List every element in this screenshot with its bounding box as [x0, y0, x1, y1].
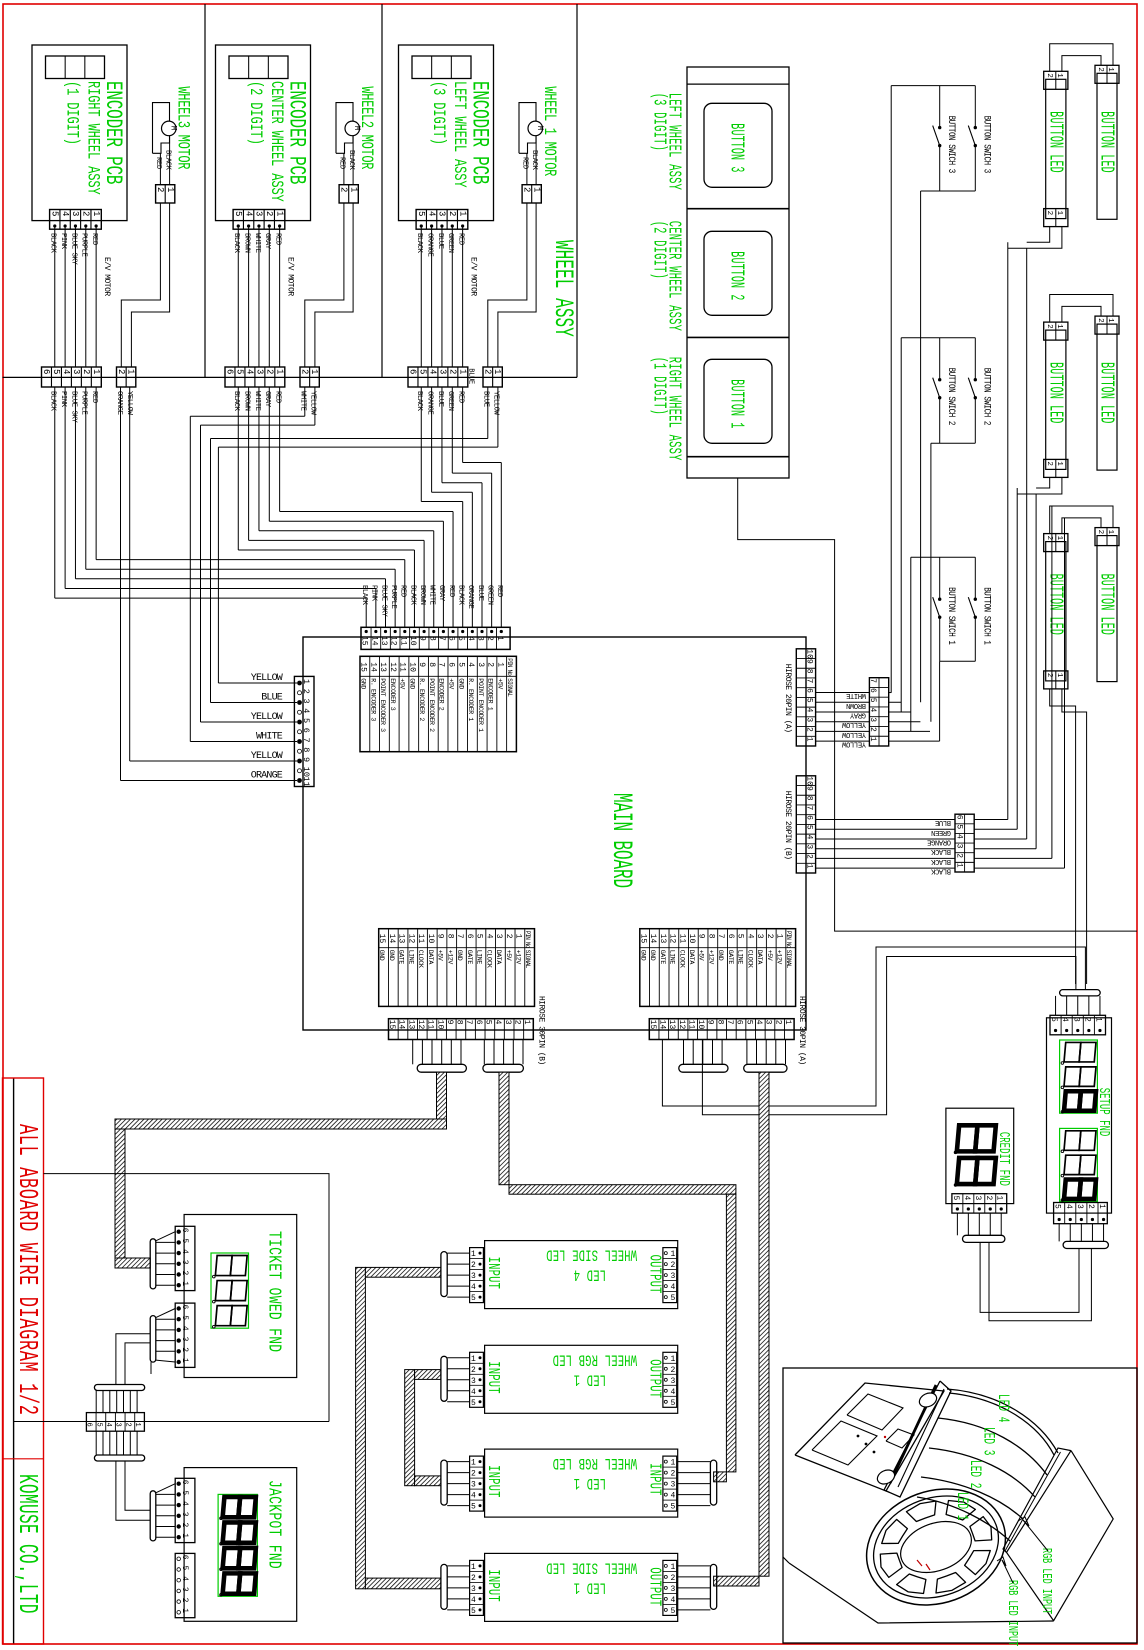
CREDIT FND 5-pin connector — [952, 1194, 1007, 1213]
svg-text:10: 10 — [805, 776, 814, 786]
wires ribbon to jackpot bus — [116, 1461, 150, 1520]
svg-text:8: 8 — [715, 1020, 724, 1025]
wire to pin 1 (YELLOW) — [218, 682, 297, 684]
svg-text:BUTTON LED: BUTTON LED — [1044, 574, 1067, 635]
svg-text:GND: GND — [717, 950, 724, 961]
svg-text:1: 1 — [309, 369, 319, 374]
LED riser wires — [1007, 242, 1009, 819]
svg-text:ENCODER 3: ENCODER 3 — [389, 678, 396, 710]
svg-text:BLACK: BLACK — [930, 847, 951, 855]
svg-text:3: 3 — [471, 1481, 476, 1490]
switch 2 right — [974, 338, 976, 380]
motor 1 wires down with jog — [121, 203, 160, 367]
JACKPOT FND box — [184, 1468, 297, 1622]
button LED 2a tube — [1046, 330, 1066, 469]
svg-text:2: 2 — [486, 662, 495, 667]
motor 3 bottom 2-pin connector — [483, 367, 502, 387]
svg-text:GATE: GATE — [659, 950, 666, 965]
svg-text:13: 13 — [667, 1020, 676, 1030]
svg-text:4: 4 — [493, 1020, 502, 1025]
svg-text:2: 2 — [339, 187, 349, 192]
section divider 1 — [204, 4, 206, 377]
svg-text:2: 2 — [180, 1598, 189, 1603]
7-pin output wires turning up — [889, 740, 940, 742]
motor 3 wires down with jog — [488, 203, 527, 367]
svg-text:BUTTON SWICH 1: BUTTON SWICH 1 — [981, 587, 992, 644]
svg-text:1: 1 — [458, 369, 468, 374]
svg-text:2: 2 — [955, 853, 964, 858]
svg-text:4: 4 — [1060, 1017, 1069, 1022]
svg-text:2: 2 — [522, 187, 532, 192]
svg-text:1: 1 — [180, 1358, 189, 1363]
svg-text:11: 11 — [416, 934, 425, 944]
encoder 2 wires to bottom connector — [237, 226, 239, 367]
encoder 2 5-pin connector — [233, 210, 285, 230]
svg-text:JACKPOT FND: JACKPOT FND — [264, 1480, 285, 1569]
svg-text:LED 1: LED 1 — [574, 1578, 606, 1596]
svg-text:12: 12 — [668, 934, 677, 944]
isometric right plate — [1007, 1451, 1114, 1621]
svg-text:3: 3 — [114, 1423, 122, 1427]
svg-text:5: 5 — [301, 718, 311, 723]
svg-text:14: 14 — [368, 662, 377, 672]
svg-text:3: 3 — [503, 1020, 512, 1025]
svg-text:HIROSE 30PIN (B): HIROSE 30PIN (B) — [536, 996, 545, 1065]
svg-text:15: 15 — [359, 662, 368, 672]
svg-text:5: 5 — [805, 825, 814, 830]
svg-text:1: 1 — [671, 1250, 676, 1259]
svg-text:14: 14 — [369, 636, 378, 646]
svg-text:+5V: +5V — [399, 678, 406, 689]
svg-text:LED 1: LED 1 — [574, 1473, 606, 1491]
motor 3 wires to 2-pin connector — [526, 153, 528, 184]
svg-text:RIGHT WHEEL ASSY: RIGHT WHEEL ASSY — [83, 81, 102, 195]
svg-text:+5V: +5V — [698, 950, 705, 961]
svg-text:7: 7 — [455, 934, 464, 939]
svg-text:ENCODER PCB: ENCODER PCB — [284, 81, 311, 185]
svg-text:2: 2 — [1096, 67, 1104, 72]
TICKET FND bus bar 1 — [150, 1239, 156, 1289]
svg-text:13: 13 — [406, 1020, 415, 1030]
svg-text:7: 7 — [437, 662, 446, 667]
svg-text:GREEN: GREEN — [931, 828, 951, 836]
svg-text:3: 3 — [476, 636, 485, 641]
svg-text:3: 3 — [955, 844, 964, 849]
encoder PCB 2 box — [216, 45, 311, 221]
svg-text:6: 6 — [301, 728, 311, 733]
svg-text:BLUE SKY: BLUE SKY — [69, 391, 77, 423]
wire 6-pin pin1 to LED column — [974, 867, 1064, 869]
HIROSE 30PIN (B) pin row — [389, 1019, 534, 1040]
svg-text:BLACK: BLACK — [530, 150, 538, 171]
button LED 3a tube — [1046, 542, 1066, 681]
svg-text:RED: RED — [456, 391, 464, 403]
svg-text:1: 1 — [1055, 211, 1063, 216]
svg-text:1: 1 — [301, 679, 311, 684]
svg-text:PURPLE: PURPLE — [389, 585, 397, 609]
svg-text:3: 3 — [471, 1377, 476, 1386]
HIROSE 30PIN (B) bus bars — [417, 1064, 466, 1072]
svg-text:RED: RED — [399, 585, 407, 597]
svg-text:4: 4 — [1064, 1204, 1073, 1209]
ribbon wires lower — [95, 1431, 97, 1455]
svg-text:YELLOW: YELLOW — [841, 730, 866, 738]
isometric LED strip arcs — [917, 1389, 1058, 1541]
svg-text:6: 6 — [735, 1020, 744, 1025]
svg-text:BUTTON 2: BUTTON 2 — [725, 251, 748, 300]
svg-text:11: 11 — [686, 1020, 695, 1030]
svg-text:6: 6 — [180, 1555, 189, 1560]
svg-text:8: 8 — [455, 1020, 464, 1025]
svg-text:5: 5 — [671, 1503, 676, 1512]
svg-text:7: 7 — [868, 678, 877, 683]
CREDIT FND display — [957, 1125, 996, 1151]
svg-text:1: 1 — [471, 1563, 476, 1572]
svg-text:(2 DIGIT): (2 DIGIT) — [649, 221, 671, 279]
svg-text:1: 1 — [1093, 1017, 1102, 1022]
svg-text:GRAY: GRAY — [263, 391, 271, 408]
encoder 3 3-cell connector — [412, 56, 471, 79]
title block red box — [3, 1078, 44, 1644]
TICKET OWED FND display — [211, 1253, 249, 1328]
svg-text:2: 2 — [471, 1366, 476, 1375]
svg-text:BLUE: BLUE — [935, 818, 951, 826]
LED module LED 1 left bus bar — [441, 1460, 447, 1505]
svg-text:1: 1 — [495, 662, 504, 667]
svg-text:4: 4 — [671, 1283, 676, 1292]
svg-text:8: 8 — [706, 934, 715, 939]
encoder 3 5-pin connector — [416, 210, 468, 230]
svg-text:1: 1 — [180, 1281, 189, 1286]
LED module LED 1 left bus bar — [441, 1564, 447, 1609]
svg-text:+12V: +12V — [707, 950, 714, 965]
svg-text:PURPLE: PURPLE — [80, 233, 88, 257]
svg-text:5: 5 — [416, 211, 426, 216]
svg-text:BUTTON LED: BUTTON LED — [1095, 574, 1118, 635]
svg-text:6: 6 — [85, 1423, 93, 1427]
svg-text:RED: RED — [90, 391, 98, 403]
svg-text:(3 DIGIT): (3 DIGIT) — [649, 93, 671, 151]
LED pair 2 top rails — [1050, 295, 1113, 323]
svg-text:BROWN: BROWN — [242, 391, 250, 411]
isometric wheel rim — [850, 1470, 1022, 1624]
svg-text:1: 1 — [1055, 536, 1063, 541]
title block divider red — [3, 1458, 44, 1460]
svg-text:4: 4 — [745, 934, 754, 939]
TICKET FND connector 2 — [175, 1303, 195, 1367]
encoder 1 5-pin connector — [50, 210, 102, 230]
button LED 1b tube — [1097, 73, 1117, 219]
svg-text:5: 5 — [671, 1399, 676, 1408]
svg-text:3: 3 — [255, 369, 265, 374]
CREDIT FND bus bar — [963, 1235, 1005, 1242]
svg-text:ALL ABOARD WIRE DIAGRAM 1/2: ALL ABOARD WIRE DIAGRAM 1/2 — [12, 1124, 43, 1416]
isometric drawing frame — [783, 1368, 1137, 1643]
svg-text:1: 1 — [492, 369, 502, 374]
svg-text:9: 9 — [301, 757, 311, 762]
svg-text:14: 14 — [657, 1020, 666, 1030]
wire 6-pin pin3 to LED column — [974, 848, 1036, 850]
switch 1 right — [974, 557, 976, 599]
svg-text:WHITE: WHITE — [253, 391, 261, 411]
svg-text:12: 12 — [389, 636, 398, 646]
CREDIT FND box — [946, 1108, 1014, 1203]
svg-text:3: 3 — [1075, 1204, 1084, 1209]
svg-text:ORANGE: ORANGE — [115, 391, 123, 415]
svg-text:1: 1 — [671, 1563, 676, 1572]
svg-text:10: 10 — [407, 662, 416, 672]
svg-text:WHEEL SIDE LED: WHEEL SIDE LED — [546, 1245, 637, 1263]
svg-text:2: 2 — [1045, 324, 1053, 329]
svg-text:5: 5 — [50, 211, 60, 216]
svg-text:BLACK: BLACK — [49, 233, 57, 254]
svg-text:1: 1 — [671, 1459, 676, 1468]
LED module LED 1 right bus bar — [710, 1460, 716, 1505]
svg-text:YELLOW: YELLOW — [841, 720, 866, 728]
svg-text:9: 9 — [697, 934, 706, 939]
svg-text:BUTTON SWICH 2: BUTTON SWICH 2 — [981, 368, 992, 425]
HIROSE 20PIN (B) connector — [796, 776, 815, 873]
svg-text:GND: GND — [649, 950, 656, 961]
svg-text:5: 5 — [94, 1423, 102, 1427]
svg-text:BLACK: BLACK — [930, 867, 951, 875]
svg-text:2: 2 — [448, 369, 458, 374]
svg-text:GREEN: GREEN — [446, 391, 454, 411]
svg-text:3: 3 — [805, 717, 814, 722]
svg-text:4: 4 — [60, 211, 70, 216]
svg-text:10: 10 — [408, 636, 417, 646]
switch 3 mid — [939, 86, 941, 128]
svg-text:14: 14 — [648, 934, 657, 944]
svg-text:1: 1 — [955, 863, 964, 868]
svg-text:8: 8 — [301, 747, 311, 752]
svg-text:RED: RED — [273, 233, 281, 245]
svg-text:3: 3 — [438, 369, 448, 374]
svg-text:1: 1 — [180, 1533, 189, 1538]
svg-text:2: 2 — [1045, 461, 1053, 466]
svg-text:ORANGE: ORANGE — [251, 771, 283, 782]
svg-text:BUTTON 1: BUTTON 1 — [725, 379, 748, 428]
svg-text:ENCODER PCB: ENCODER PCB — [467, 81, 494, 185]
svg-text:INPUT: INPUT — [483, 1257, 501, 1289]
svg-text:8: 8 — [427, 662, 436, 667]
svg-text:8: 8 — [427, 636, 436, 641]
svg-text:6: 6 — [474, 1020, 483, 1025]
svg-text:5: 5 — [180, 1238, 189, 1243]
svg-text:7: 7 — [437, 636, 446, 641]
svg-text:BLUE: BLUE — [436, 391, 444, 407]
svg-text:1: 1 — [514, 934, 523, 939]
switch 2 mid — [939, 338, 941, 380]
svg-text:2: 2 — [805, 854, 814, 859]
svg-text:ORANGE: ORANGE — [425, 391, 433, 415]
svg-text:4: 4 — [955, 834, 964, 839]
LED pair 3 bottom wires — [1050, 689, 1076, 984]
svg-text:BUTTON SWICH 3: BUTTON SWICH 3 — [981, 116, 992, 173]
isometric plate top edge double line — [1003, 1448, 1071, 1552]
svg-text:9: 9 — [445, 1020, 454, 1025]
wire 6-pin pin6 to LED column — [974, 819, 1008, 821]
motor 3 2-pin connector — [522, 185, 541, 203]
svg-text:2: 2 — [483, 369, 493, 374]
svg-text:GATE: GATE — [398, 950, 405, 965]
svg-text:2: 2 — [471, 1574, 476, 1583]
svg-text:BLUE: BLUE — [261, 693, 283, 704]
svg-text:GRAY: GRAY — [849, 710, 866, 718]
LED module LED 1 input strip — [470, 1560, 484, 1615]
button box output wire — [738, 478, 1137, 931]
svg-text:HIROSE 30PIN (A): HIROSE 30PIN (A) — [797, 996, 806, 1065]
svg-text:12: 12 — [416, 1020, 425, 1030]
svg-text:RED: RED — [495, 585, 503, 597]
svg-text:5: 5 — [1053, 1204, 1062, 1209]
button 1 rounded square — [704, 359, 772, 443]
svg-text:10: 10 — [805, 649, 814, 659]
wire to pin 9 (YELLOW) — [130, 760, 297, 762]
svg-text:YELLOW: YELLOW — [492, 391, 500, 416]
svg-text:1: 1 — [522, 1020, 531, 1025]
svg-text:4: 4 — [104, 1423, 112, 1427]
svg-text:3: 3 — [180, 1512, 189, 1517]
svg-text:1: 1 — [1106, 530, 1114, 535]
svg-text:4: 4 — [671, 1492, 676, 1501]
svg-text:2: 2 — [984, 1196, 993, 1201]
isometric left panel — [795, 1383, 944, 1491]
svg-text:PINK: PINK — [59, 233, 67, 250]
svg-text:1: 1 — [275, 369, 285, 374]
svg-text:CLOCK: CLOCK — [746, 950, 753, 968]
JACKPOT FND connector 2 (unwired) — [175, 1553, 195, 1617]
svg-text:1: 1 — [91, 211, 101, 216]
svg-text:3: 3 — [755, 934, 764, 939]
svg-text:GREEN: GREEN — [446, 233, 454, 253]
svg-text:1: 1 — [1106, 318, 1114, 323]
svg-text:+5V: +5V — [766, 950, 773, 961]
wires ticket bus2 to ribbon — [150, 1362, 152, 1374]
svg-text:5: 5 — [51, 369, 61, 374]
ribbon pass-through connector — [86, 1413, 144, 1432]
svg-text:15: 15 — [377, 934, 386, 944]
svg-text:YELLOW: YELLOW — [309, 391, 317, 416]
svg-text:5: 5 — [471, 1294, 476, 1303]
svg-text:11: 11 — [301, 777, 311, 787]
svg-text:YELLOW: YELLOW — [841, 740, 866, 748]
wire to pin 3 (BLUE) — [211, 702, 298, 704]
encoder 2 wire staircase — [279, 387, 281, 512]
button switch 1 circuit — [911, 556, 976, 558]
svg-text:BUTTON LED: BUTTON LED — [1095, 362, 1118, 423]
svg-text:2: 2 — [485, 636, 494, 641]
svg-text:GATE: GATE — [727, 950, 734, 965]
wire 6-pin pin2 to LED column — [974, 857, 1052, 859]
encoder 3 wires to bottom connector — [420, 226, 422, 367]
svg-text:+5V: +5V — [447, 678, 454, 689]
svg-text:ENCODER 2: ENCODER 2 — [438, 678, 445, 710]
LED module LED 4 left bus bar — [441, 1252, 447, 1297]
wire to pin 5 (YELLOW) — [201, 721, 298, 723]
encoder PCB 3 box — [399, 45, 494, 221]
svg-text:1: 1 — [1097, 1204, 1106, 1209]
svg-text:(1 DIGIT): (1 DIGIT) — [62, 81, 81, 145]
encoder 3 wire staircase — [462, 387, 464, 463]
svg-text:5: 5 — [744, 1020, 753, 1025]
svg-text:YELLOW: YELLOW — [251, 751, 283, 762]
svg-text:2: 2 — [116, 369, 126, 374]
isometric bracket holes — [917, 1390, 939, 1409]
svg-text:LED 4: LED 4 — [574, 1265, 606, 1283]
svg-text:R. ENCODER 1: R. ENCODER 1 — [467, 678, 474, 721]
svg-text:4: 4 — [180, 1576, 189, 1581]
svg-text:R. ENCODER 3: R. ENCODER 3 — [369, 678, 376, 721]
svg-text:2: 2 — [671, 1470, 676, 1479]
encoder 1 3-cell connector — [46, 56, 105, 79]
wheel motor 1 circle M — [162, 121, 177, 136]
svg-text:3: 3 — [471, 1585, 476, 1594]
svg-text:4: 4 — [471, 1388, 476, 1397]
svg-text:LINE: LINE — [407, 950, 414, 965]
wheel motor 2 bracket — [336, 103, 353, 154]
svg-text:BUTTON LED: BUTTON LED — [1044, 111, 1067, 172]
svg-text:YELLOW: YELLOW — [251, 712, 283, 723]
CREDIT-SETUP link wires — [980, 1242, 1079, 1312]
svg-text:HIROSE 20PIN (A): HIROSE 20PIN (A) — [783, 664, 792, 733]
svg-text:2: 2 — [471, 1261, 476, 1270]
svg-text:2: 2 — [1045, 211, 1053, 216]
svg-text:E/V MOTOR: E/V MOTOR — [469, 257, 478, 296]
svg-text:+5V: +5V — [505, 950, 512, 961]
main board left 11-pin connector — [294, 676, 314, 786]
svg-text:RED: RED — [456, 233, 464, 245]
ribbon bottom bus bar — [94, 1455, 144, 1461]
svg-text:KOMUSE CO.,LTD: KOMUSE CO.,LTD — [12, 1474, 42, 1614]
svg-text:5: 5 — [471, 1399, 476, 1408]
svg-text:8: 8 — [805, 796, 814, 801]
svg-text:3: 3 — [471, 1272, 476, 1281]
TICKET OWED FND box — [184, 1215, 297, 1378]
wire 6-pin pin5 to LED column — [974, 828, 1017, 830]
svg-text:BLACK: BLACK — [347, 150, 355, 171]
svg-text:GND: GND — [378, 950, 385, 961]
svg-text:7: 7 — [464, 1020, 473, 1025]
svg-text:RGB LED INPUT: RGB LED INPUT — [1004, 1580, 1018, 1646]
svg-text:8: 8 — [445, 934, 454, 939]
svg-text:DATA: DATA — [756, 950, 763, 965]
svg-text:3: 3 — [180, 1337, 189, 1342]
svg-text:1: 1 — [457, 211, 467, 216]
svg-text:WHITE: WHITE — [253, 233, 261, 253]
svg-text:4: 4 — [466, 662, 475, 667]
svg-text:GRAY: GRAY — [263, 233, 271, 250]
svg-text:PIN No: PIN No — [524, 931, 531, 949]
svg-text:1: 1 — [1055, 324, 1063, 329]
svg-text:4: 4 — [180, 1249, 189, 1254]
svg-text:6: 6 — [805, 815, 814, 820]
svg-text:(3 DIGIT): (3 DIGIT) — [428, 81, 447, 145]
svg-text:+12V: +12V — [776, 950, 783, 965]
SETUP FND top 5-pin connector — [1050, 1015, 1106, 1035]
svg-text:BROWN: BROWN — [846, 701, 866, 709]
svg-text:BLACK: BLACK — [930, 857, 951, 865]
svg-text:BUTTON SWICH 1: BUTTON SWICH 1 — [946, 587, 957, 644]
svg-text:LINE: LINE — [669, 950, 676, 965]
wheel motor 2 circle M — [345, 121, 360, 136]
motor 1 2-pin connector — [156, 185, 175, 203]
button 3 rounded square — [704, 103, 772, 187]
main board top 15-pin connector — [361, 627, 510, 649]
isometric wheel spoke slots — [970, 1517, 992, 1541]
svg-text:3: 3 — [764, 1020, 773, 1025]
svg-text:CLOCK: CLOCK — [417, 950, 424, 968]
